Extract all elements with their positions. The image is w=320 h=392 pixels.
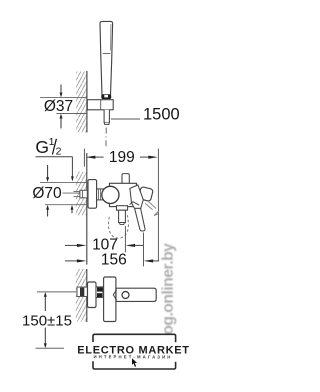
union nut (middle view): [97, 189, 104, 200]
lever arm chevron notch: [113, 290, 116, 300]
wall edge / extension line (middle): [86, 153, 88, 265]
concealed elbow square: [80, 190, 87, 198]
svg-text:156: 156: [101, 251, 127, 268]
dimension 199 right arrow: [140, 156, 158, 159]
outlet tip: [119, 223, 124, 225]
union nut (bottom view): [96, 287, 103, 298]
lever notch line: [130, 202, 140, 206]
hose centerline (dash-dot): [105, 128, 107, 147]
hand shower head inner line: [110, 24, 112, 51]
dimension Ø70 bottom arrow b: [71, 205, 74, 213]
dimension 199 right tick / extension line: [157, 149, 159, 262]
watermark og.onliner.by: [160, 243, 177, 335]
dimension 199 left tick: [83, 149, 85, 167]
svg-text:1: 1: [49, 136, 55, 148]
wall edge line (top): [86, 71, 88, 133]
outlet collar: [117, 206, 128, 211]
dimension Ø37 top arrow: [60, 85, 63, 98]
dimension Ø37 bottom arrow: [60, 114, 63, 129]
150 top reference line: [37, 291, 77, 293]
break slash marks: [145, 203, 152, 210]
wall hatch (bottom): [76, 269, 87, 322]
dimension 107 left arrow: [65, 244, 86, 247]
concealed pipe stubs: [74, 191, 80, 193]
dimension 199 left arrow: [86, 156, 104, 159]
dimension 150±15 top arrow: [44, 292, 47, 311]
dimension 107 right extension line: [124, 226, 126, 252]
cartridge top cap: [122, 174, 129, 184]
wall hatch (middle): [76, 172, 87, 216]
svg-text:150±15: 150±15: [22, 313, 72, 330]
svg-text:Ø70: Ø70: [32, 185, 62, 202]
lever shaft: [135, 208, 145, 231]
150 bottom reference line: [36, 347, 65, 349]
svg-text:Ø37: Ø37: [44, 98, 73, 115]
dimension 156 right extension line: [143, 233, 145, 267]
svg-text:G: G: [35, 137, 49, 157]
dimension Ø70 bottom extension line: [45, 204, 87, 206]
concealed elbow (bottom view): [77, 287, 87, 296]
hose connector: [104, 110, 109, 125]
Ø70 center leader line: [63, 192, 81, 194]
escutcheon (bottom view): [88, 282, 97, 308]
cursor icon: [132, 358, 137, 367]
leader line to 1500: [111, 118, 140, 120]
dimension 156 right arrow: [144, 259, 160, 262]
lever arm (bottom view): [116, 288, 156, 301]
svg-text:og.onliner.by: og.onliner.by: [160, 243, 177, 335]
dimension Ø70 top arrow: [46, 165, 49, 182]
ball joint: [102, 186, 119, 203]
lever knob: [138, 186, 153, 201]
svg-text:199: 199: [109, 149, 135, 166]
extension line break zigzag: [154, 212, 158, 216]
dimension Ø37 top extension line: [40, 97, 87, 99]
dimension 107 right arrow: [126, 244, 144, 247]
hand shower head and handle outline: [100, 21, 113, 94]
leader G1/2 vertical with arrow: [71, 157, 74, 182]
wall bracket: [87, 100, 113, 110]
svg-text:ИНТЕРНЕТ-МАГАЗИН: ИНТЕРНЕТ-МАГАЗИН: [93, 354, 172, 359]
svg-text:2: 2: [56, 146, 62, 158]
lever body: [130, 185, 143, 208]
escutcheon (middle view): [88, 180, 97, 209]
wall hatch (top): [76, 72, 86, 133]
dimension 150±15 bottom arrow: [44, 328, 47, 349]
dimension Ø70 top extension line: [40, 181, 87, 183]
holder clamp band: [101, 94, 111, 99]
leader G1/2 underline: [36, 156, 73, 158]
dimension Ø70 bottom arrow a: [46, 205, 49, 217]
mixer body (middle view): [110, 183, 137, 206]
wall edge line (bottom): [86, 269, 88, 322]
dashed hose loop: [108, 215, 128, 238]
hand shower seam line: [103, 53, 111, 55]
dimension 156 left arrow: [65, 259, 86, 262]
outlet tube: [119, 210, 126, 222]
logo box: [93, 334, 176, 369]
lever arm hole: [122, 292, 129, 299]
mixer body block (bottom view): [104, 277, 116, 322]
dimension Ø37 bottom extension line: [57, 113, 87, 115]
svg-text:1500: 1500: [143, 106, 180, 124]
